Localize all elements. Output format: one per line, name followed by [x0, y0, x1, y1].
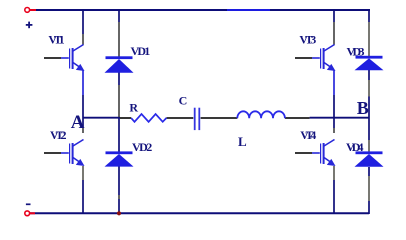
svg-text:L: L — [238, 134, 247, 149]
svg-text:VT3: VT3 — [299, 33, 316, 47]
svg-text:C: C — [179, 94, 188, 108]
svg-text:VT1: VT1 — [48, 33, 64, 47]
svg-text:A: A — [71, 112, 85, 133]
svg-text:VD3: VD3 — [347, 44, 365, 58]
svg-text:B: B — [357, 98, 369, 118]
svg-text:VT2: VT2 — [50, 128, 67, 142]
svg-text:VT4: VT4 — [300, 128, 316, 142]
svg-text:VD2: VD2 — [132, 140, 152, 154]
svg-text:VD1: VD1 — [131, 44, 151, 58]
svg-text:VD4: VD4 — [346, 140, 364, 154]
svg-text:R: R — [129, 100, 138, 114]
